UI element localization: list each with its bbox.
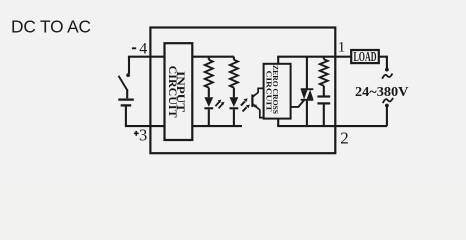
wire battery to bottom corner [125,106,127,125]
LED D1 cathode bar [204,107,213,109]
wire zero-cross bottom stub [277,119,279,127]
LED D1 triangle [204,97,213,107]
wire bottom-left rail (+3 to INPUT CIRCUIT box) [125,125,165,127]
svg-text:LOAD: LOAD [354,50,377,65]
triac T1 right triangle [307,90,314,99]
triac T1 bottom bar [301,99,314,101]
svg-text:24~380V: 24~380V [355,84,409,99]
LED D2 cathode bar [230,107,239,109]
wire LED2 to bottom rail [233,109,235,126]
wire output bottom rail / terminal 2 [277,125,387,127]
wire bottom rail right of input box [192,125,242,127]
svg-text:CIRCUIT: CIRCUIT [265,71,274,112]
wire R1 to LED1 [208,88,210,98]
phototransistor Q1 collector [252,88,263,97]
capacitor C1 top plate [317,95,330,97]
wire branch R2 top stub [233,57,235,60]
svg-text:1: 1 [338,39,346,55]
wire triac lower [306,100,308,126]
phototransistor Q1 emitter [252,104,263,118]
triac gate wire [291,100,305,107]
battery B1 long plate [118,98,134,100]
wire LED1 to bottom rail [208,109,210,126]
resistor R1 [205,60,213,88]
wire snubber upper stub [323,57,325,60]
AC tilde upper [382,74,392,79]
wire zero-cross top stub [277,57,279,64]
INPUT CIRCUIT box U1 [165,43,193,140]
wire top rail right of input box [192,56,234,58]
phototransistor Q1 emitter arrowhead [254,104,258,108]
wire LOAD to AC source corner [379,57,387,69]
LOAD box [351,50,379,63]
svg-text:2: 2 [340,128,349,147]
ZERO CROSS CIRCUIT box U2 [264,64,291,119]
AC tilde lower [383,98,393,103]
triac T1 top bar [301,88,314,90]
wire triac upper [306,57,308,89]
wire branch R1 top stub [208,57,210,60]
wire output top rail [277,56,351,58]
wire R2 to LED2 [233,88,235,98]
phototransistor Q1 base bar [251,95,253,108]
wire top-left rail (-4 to INPUT CIRCUIT box) [128,56,165,58]
wire snubber C to bottom rail [323,104,325,126]
resistor R3 snubber [320,59,328,85]
LED D1 emission arrows [215,100,224,109]
triac T1 left triangle [301,90,308,99]
AC source top terminal dot [385,68,389,72]
capacitor C1 bottom plate [317,102,330,104]
svg-text:4: 4 [139,40,147,57]
wire snubber R to C [323,86,325,96]
wire switch to battery [126,89,128,98]
terminal label -4 [132,47,136,49]
wire AC source to terminal 2 [386,106,388,126]
svg-text:CIRCUIT: CIRCUIT [166,66,180,118]
optocoupler light arrows [241,98,250,111]
ZERO CROSS CIRCUIT label [265,65,280,114]
svg-text:3: 3 [139,126,147,145]
wire switch drop [128,57,130,74]
AC source bottom terminal dot [385,104,389,108]
svg-text:DC TO AC: DC TO AC [11,17,91,37]
SSR outer case [150,28,335,154]
switch S1 contact dot [126,73,130,77]
switch S1 blade [119,76,128,90]
resistor R2 [230,60,238,88]
battery B1 short plate [121,104,132,106]
LED D2 triangle [230,97,239,107]
terminal label +3 [134,131,139,136]
INPUT CIRCUIT label [166,66,188,118]
